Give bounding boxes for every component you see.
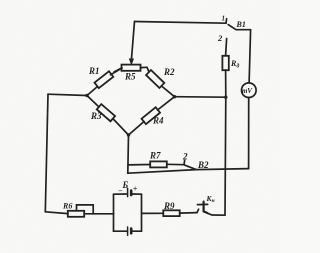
wire left node to left rail <box>48 94 87 95</box>
wire top (R5 wiper to switch B1 contact 1) <box>135 22 227 24</box>
resistor R1 <box>87 87 98 96</box>
battery top branch wires <box>114 193 127 195</box>
wire right rail vertical (battery feed) <box>224 97 227 215</box>
wire mV bottom <box>248 98 250 169</box>
switch B2 contact 2 tick <box>183 161 186 165</box>
wire R5 right lead <box>141 66 148 68</box>
resistor Rd body <box>222 56 228 70</box>
wire right node to rail junction <box>175 96 226 99</box>
wire mV top <box>249 30 251 83</box>
battery cell bottom (long plate) <box>127 227 129 235</box>
node bottom <box>127 133 130 136</box>
node rail junction <box>224 96 227 99</box>
wire galvanometer horizontal <box>128 169 249 174</box>
resistor Rd lead down <box>225 70 227 97</box>
wire battery to R9 <box>142 212 164 214</box>
resistor R2 <box>147 67 149 72</box>
node right <box>173 95 176 98</box>
resistor R7 body <box>150 161 167 167</box>
wire Kn to right rail <box>207 213 225 215</box>
wiper arrow onto R5 <box>130 58 132 63</box>
wire R9 to Kn contact <box>180 212 197 215</box>
push-button Kn stem <box>204 202 208 213</box>
resistor R3 <box>87 96 99 108</box>
paper noise (decorative) <box>0 0 1 1</box>
Kn left contact tick <box>197 209 199 212</box>
switch B1 contact 1 tick <box>225 19 228 23</box>
resistor R5 (slidewire) body <box>122 65 141 71</box>
wire top-left vertical (down to wiper arrow) <box>132 22 135 58</box>
battery cell top (short plate) <box>130 191 133 195</box>
push-button Kn bar <box>198 203 208 205</box>
resistor R4 <box>129 122 145 136</box>
battery loop right side <box>141 194 143 231</box>
R6 slider jumper <box>77 205 94 214</box>
wire bottom node down <box>127 135 130 173</box>
wire left rail vertical <box>45 94 48 212</box>
resistor R6 body <box>68 211 84 217</box>
wire R6 to battery <box>84 213 113 215</box>
battery cell top (long plate) <box>127 188 129 196</box>
millivoltmeter mV <box>242 83 257 98</box>
battery bottom branch wires <box>114 230 127 232</box>
wire Rd to B1 contact 2 <box>226 39 227 56</box>
wire left rail to R6 <box>45 212 68 214</box>
switch B1 blade <box>228 25 250 30</box>
node left <box>85 94 88 97</box>
resistor R9 body <box>163 210 179 216</box>
wire R5 left lead <box>114 68 123 72</box>
battery loop left side <box>113 194 115 231</box>
wire R7 to B2 contact <box>167 163 184 165</box>
wire tee to R7 <box>128 164 150 166</box>
switch B2 blade <box>184 165 196 170</box>
battery cell bottom (short plate) <box>130 229 133 234</box>
